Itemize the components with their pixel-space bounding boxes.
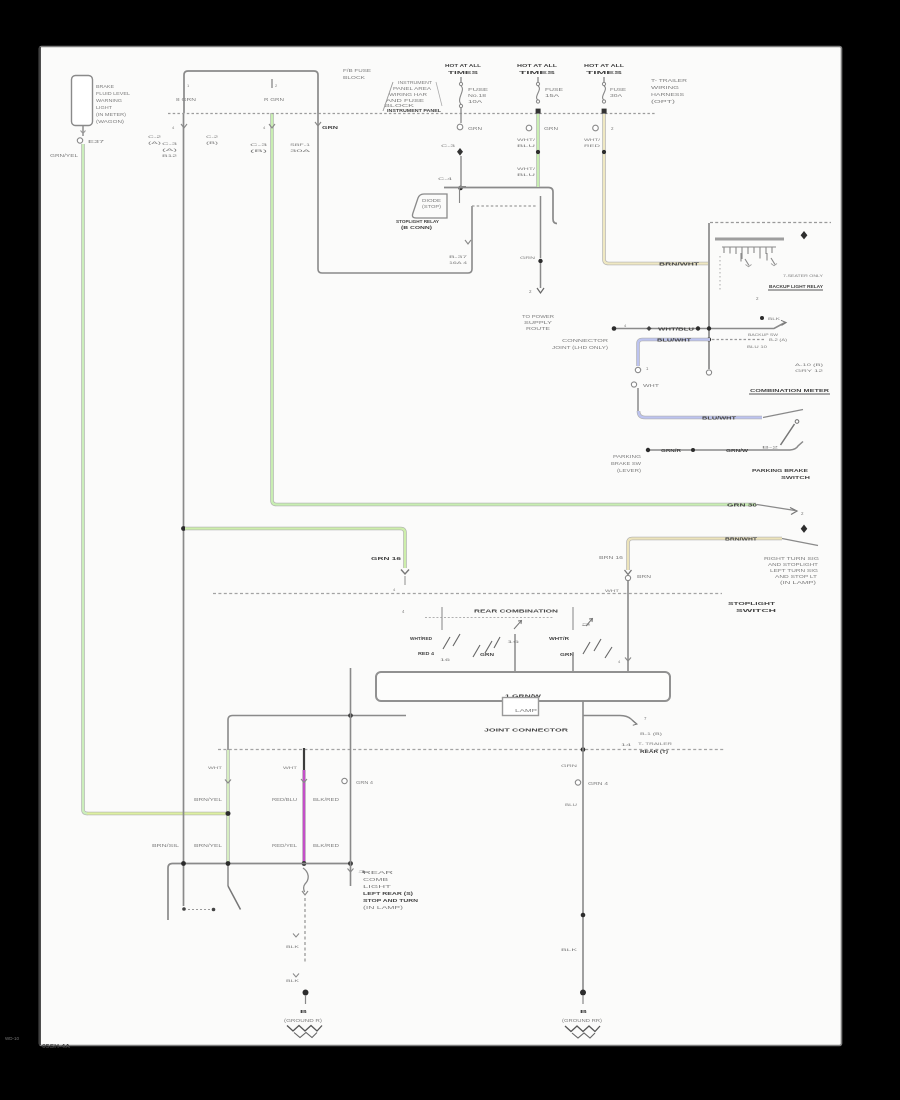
svg-text:BACKUP LIGHT RELAY: BACKUP LIGHT RELAY (769, 284, 823, 289)
svg-text:REAR (T): REAR (T) (640, 749, 669, 754)
svg-text:16: 16 (440, 657, 452, 662)
svg-text:STOPLIGHT: STOPLIGHT (728, 601, 776, 606)
svg-text:STOP AND TURN: STOP AND TURN (363, 898, 418, 903)
svg-text:WHT/R: WHT/R (549, 636, 570, 641)
svg-text:HOT AT ALL: HOT AT ALL (584, 63, 625, 68)
svg-text:BRN: BRN (637, 574, 651, 579)
svg-text:REAR: REAR (363, 870, 393, 875)
svg-text:8 GRN: 8 GRN (176, 97, 196, 102)
svg-text:SUPPLY: SUPPLY (524, 320, 552, 325)
svg-text:F/B FUSE: F/B FUSE (343, 68, 371, 73)
svg-text:(GROUND R): (GROUND R) (284, 1018, 323, 1023)
svg-text:BLOCK: BLOCK (343, 75, 365, 80)
svg-text:(STOP): (STOP) (422, 204, 442, 209)
svg-text:WHT: WHT (283, 765, 298, 770)
svg-text:HOT AT ALL: HOT AT ALL (445, 63, 482, 68)
svg-text:PARKING BRAKE: PARKING BRAKE (752, 468, 808, 473)
svg-text:C-2: C-2 (206, 134, 219, 139)
svg-text:GRN: GRN (560, 652, 574, 657)
svg-text:GRN: GRN (520, 255, 535, 260)
svg-text:30A: 30A (610, 93, 622, 98)
svg-text:RED/BLU: RED/BLU (272, 797, 297, 802)
svg-text:GRN: GRN (480, 652, 494, 657)
svg-text:SWITCH: SWITCH (736, 608, 776, 613)
svg-text:(A): (A) (148, 140, 163, 145)
svg-text:BLU 10: BLU 10 (747, 344, 768, 349)
svg-text:WHT: WHT (605, 588, 620, 593)
svg-text:WHT: WHT (208, 765, 223, 770)
svg-text:SBF-1: SBF-1 (290, 142, 311, 147)
svg-text:(LEVER): (LEVER) (617, 468, 642, 473)
svg-text:REAR COMBINATION: REAR COMBINATION (474, 609, 558, 614)
svg-text:BRAKE SW: BRAKE SW (611, 461, 641, 466)
svg-text:E37: E37 (88, 139, 105, 144)
svg-text:No.18: No.18 (468, 93, 487, 98)
svg-text:WHT: WHT (643, 383, 660, 388)
svg-text:INSTRUMENT: INSTRUMENT (398, 80, 433, 85)
svg-text:BLK: BLK (768, 316, 781, 321)
svg-text:WHT/RED: WHT/RED (410, 636, 432, 641)
svg-text:BLK: BLK (561, 947, 578, 952)
svg-text:HOT AT ALL: HOT AT ALL (517, 63, 558, 68)
svg-text:GRN 4: GRN 4 (588, 781, 609, 786)
svg-text:WIRING HAR: WIRING HAR (389, 92, 427, 97)
svg-text:14: 14 (621, 742, 633, 747)
svg-text:BRN/SIL: BRN/SIL (152, 843, 180, 848)
svg-text:PANEL AREA: PANEL AREA (393, 86, 431, 91)
svg-text:WHT/: WHT/ (584, 137, 601, 142)
svg-text:GRN 16: GRN 16 (371, 556, 402, 561)
svg-text:LIGHT: LIGHT (96, 105, 112, 110)
svg-text:TO POWER: TO POWER (522, 314, 554, 319)
svg-text:RED: RED (584, 143, 600, 148)
svg-text:FLUID LEVEL: FLUID LEVEL (96, 91, 131, 96)
svg-text:STOPLIGHT RELAY: STOPLIGHT RELAY (396, 219, 439, 224)
svg-text:C-4: C-4 (438, 176, 454, 181)
svg-text:BLU/WHT: BLU/WHT (657, 338, 692, 343)
svg-text:BRN 16: BRN 16 (599, 555, 624, 560)
svg-text:30A: 30A (290, 148, 311, 153)
svg-text:BLU: BLU (517, 172, 535, 177)
svg-text:FUSE: FUSE (610, 87, 626, 92)
svg-text:BRN/WHT: BRN/WHT (659, 262, 700, 267)
svg-text:TIMES: TIMES (448, 70, 478, 75)
svg-text:GRN: GRN (322, 125, 338, 130)
svg-text:R GRN: R GRN (264, 97, 284, 102)
svg-text:C-3: C-3 (250, 142, 269, 147)
svg-text:LEFT TURN SIG: LEFT TURN SIG (770, 568, 818, 573)
svg-text:COMBINATION METER: COMBINATION METER (750, 388, 830, 393)
svg-text:B-1 (B): B-1 (B) (640, 731, 663, 736)
svg-text:BRN/YEL: BRN/YEL (194, 843, 223, 848)
svg-text:ROUTE: ROUTE (526, 326, 550, 331)
svg-text:RED 4: RED 4 (418, 651, 435, 656)
svg-text:16: 16 (507, 639, 521, 644)
svg-text:(B CONN): (B CONN) (401, 225, 433, 230)
svg-text:BRN/WHT: BRN/WHT (725, 537, 758, 542)
svg-text:BLU/WHT: BLU/WHT (702, 416, 737, 421)
svg-text:INSTRUMENT PANEL: INSTRUMENT PANEL (387, 108, 441, 113)
svg-text:GRN 30: GRN 30 (727, 503, 758, 508)
svg-text:(WAGON): (WAGON) (96, 119, 125, 124)
svg-text:WHT/: WHT/ (517, 166, 537, 171)
svg-text:GRN/R: GRN/R (661, 448, 682, 453)
svg-text:(OPT): (OPT) (651, 99, 676, 104)
svg-text:JOINT CONNECTOR: JOINT CONNECTOR (484, 728, 569, 733)
svg-text:LEFT REAR (S): LEFT REAR (S) (363, 891, 414, 896)
svg-text:WARNING: WARNING (96, 98, 123, 103)
svg-text:(GROUND RR): (GROUND RR) (562, 1018, 603, 1023)
svg-text:CONNECTOR: CONNECTOR (562, 338, 608, 343)
svg-text:(IN LAMP): (IN LAMP) (363, 905, 404, 910)
svg-text:BLK/RED: BLK/RED (313, 797, 339, 802)
svg-text:T- TRAILER: T- TRAILER (651, 78, 687, 83)
svg-text:C-3: C-3 (162, 141, 179, 146)
svg-text:TIMES: TIMES (519, 70, 556, 75)
svg-text:B-37: B-37 (449, 254, 469, 259)
svg-text:T- TRAILER: T- TRAILER (638, 741, 672, 746)
svg-text:WHT/: WHT/ (517, 137, 537, 142)
svg-text:GRY 12: GRY 12 (795, 368, 825, 373)
svg-text:(IN LAMP): (IN LAMP) (780, 580, 817, 585)
svg-text:C-2: C-2 (148, 134, 163, 139)
svg-text:B-2: B-2 (762, 445, 780, 450)
svg-text:(B): (B) (250, 148, 269, 153)
svg-text:GRN: GRN (468, 126, 482, 131)
svg-text:10A: 10A (468, 99, 482, 104)
svg-text:GRN/YEL: GRN/YEL (50, 153, 79, 158)
svg-text:RED/YEL: RED/YEL (272, 843, 298, 848)
svg-text:GRN/W: GRN/W (726, 448, 749, 453)
svg-text:PARKING: PARKING (613, 454, 641, 459)
svg-text:WHT/BLU: WHT/BLU (658, 327, 694, 332)
svg-text:7-SEATER ONLY: 7-SEATER ONLY (783, 273, 823, 278)
svg-text:WD-10: WD-10 (5, 1036, 19, 1041)
svg-text:WIRING: WIRING (651, 85, 679, 90)
svg-text:TIMES: TIMES (586, 70, 623, 75)
svg-text:DIODE: DIODE (422, 198, 441, 203)
svg-text:BLK/RED: BLK/RED (313, 843, 339, 848)
svg-text:HARNESS: HARNESS (651, 92, 684, 97)
svg-text:GRN: GRN (544, 126, 558, 131)
svg-text:AND STOP LT: AND STOP LT (775, 574, 818, 579)
svg-text:15A: 15A (545, 93, 559, 98)
svg-text:LAMP: LAMP (515, 708, 537, 713)
svg-text:(B): (B) (206, 140, 219, 145)
svg-text:RIGHT TURN SIG: RIGHT TURN SIG (764, 556, 819, 561)
svg-text:BRAKE: BRAKE (96, 84, 114, 89)
svg-text:B12: B12 (162, 153, 179, 158)
svg-text:FUSE: FUSE (545, 87, 563, 92)
svg-text:BLK: BLK (286, 944, 300, 949)
svg-text:COMB: COMB (363, 877, 388, 882)
svg-text:BRN/YEL: BRN/YEL (194, 797, 223, 802)
svg-text:05SH-4A: 05SH-4A (42, 1044, 70, 1050)
svg-text:A-10 (B): A-10 (B) (795, 362, 824, 367)
svg-text:(IN METER): (IN METER) (96, 112, 127, 117)
svg-text:BLK: BLK (286, 978, 300, 983)
svg-text:GRN: GRN (561, 763, 577, 768)
svg-text:C-3: C-3 (441, 143, 457, 148)
svg-text:SWITCH: SWITCH (781, 475, 810, 480)
svg-text:16A 4: 16A 4 (449, 260, 468, 265)
svg-text:B-2 (A): B-2 (A) (769, 337, 788, 342)
svg-text:GRN 4: GRN 4 (356, 780, 374, 785)
svg-text:JOINT (LHD ONLY): JOINT (LHD ONLY) (552, 345, 609, 350)
svg-text:LIGHT: LIGHT (363, 884, 392, 889)
svg-text:BLU: BLU (565, 802, 577, 807)
svg-text:BLU: BLU (517, 143, 535, 148)
svg-text:(A): (A) (162, 147, 179, 152)
svg-text:AND STOPLIGHT: AND STOPLIGHT (768, 562, 819, 567)
svg-text:FUSE: FUSE (468, 87, 488, 92)
